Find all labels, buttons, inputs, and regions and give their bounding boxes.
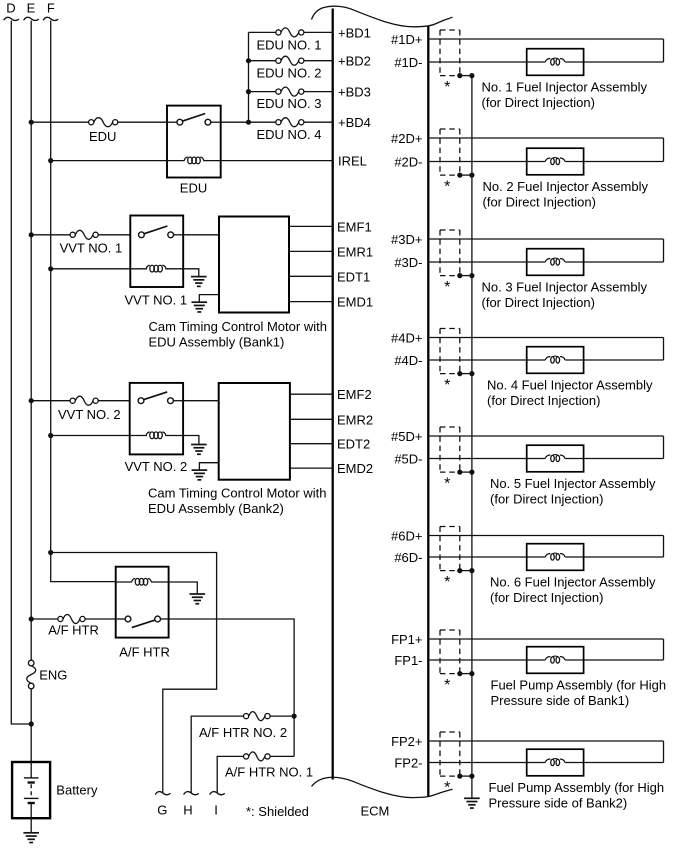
wire IREL (F bus to ECM through EDU relay coil) [51,160,185,162]
fuse A/F HTR [58,615,85,624]
wire FP1- (minus) [428,659,545,661]
battery cell1 long plate [24,777,39,779]
wire EMF1 [289,225,333,227]
node I terminal squiggle [210,792,225,795]
relay VVT NO.2 switch lever [143,392,167,400]
svg-text:I: I [214,803,218,818]
wire relay A/F HTR switch internals [116,618,125,620]
ground cam motor bank2 [192,470,208,480]
svg-text:#6D+: #6D+ [391,529,422,544]
wire right-end loop row 8 [663,741,665,763]
wire EMD2 [290,467,333,469]
relay EDU coil [184,157,204,164]
relay A/F HTR switch contact left [125,616,131,622]
fuse VVT NO. 1 [70,230,98,239]
ECM right boundary [427,26,429,797]
svg-text:Cam Timing Control Motor with: Cam Timing Control Motor with [149,319,327,334]
wire right-end loop row 6 [663,536,665,558]
relay VVT NO.1 coil [146,265,166,272]
svg-text:+BD3: +BD3 [338,85,371,100]
fuse EDU NO. 1 [276,28,304,37]
wire FP1+ (plus) [428,638,663,640]
wire right-end loop row 3 [663,239,665,262]
svg-text:#4D+: #4D+ [391,331,422,346]
wire +BD3 fuse row [249,91,277,93]
battery cell2 short plate [28,802,35,804]
wire battery to ground [30,818,32,833]
wire shield tie row 7 [460,673,472,675]
svg-text:No. 3 Fuel Injector Assembly: No. 3 Fuel Injector Assembly [482,279,648,294]
svg-text:#3D+: #3D+ [391,232,422,247]
svg-text:(for Direct Injection): (for Direct Injection) [483,194,596,209]
svg-text:EMF2: EMF2 [337,387,372,402]
fuel injector coil row 1 [545,58,565,65]
ground A/F HTR coil [190,594,206,604]
svg-text:#3D-: #3D- [394,255,422,270]
wire #4D- (minus) [428,359,545,361]
wire EDU fuse feed [31,121,89,123]
relay VVT NO.1 box [130,216,183,288]
junction branch / +BD4 [246,120,251,125]
junction shield row 7 b [469,671,474,676]
svg-text:EDU: EDU [180,181,207,196]
fuel injector box row 2 [527,148,584,175]
junction F bus / VVT NO.1 coil [48,266,53,271]
ground VVT NO.2 coil [191,445,207,455]
ECM left boundary [332,9,334,780]
svg-text:+BD1: +BD1 [338,25,371,40]
wire FP2+ (plus) [428,740,663,742]
fuel pump coil row 8 [545,759,565,766]
fuel injector coil row 6 [545,553,565,560]
wire A/F HTR coil to ground [169,582,198,594]
junction E bus / VVT NO.1 fuse [29,232,34,237]
svg-text:#5D+: #5D+ [391,429,422,444]
svg-text:EMD1: EMD1 [337,295,373,310]
svg-text:EDT2: EDT2 [337,437,370,452]
wire VVT NO.1 relay coil feed [51,268,147,270]
fuse A/F HTR NO. 1 [244,752,271,761]
svg-text:EMR2: EMR2 [337,412,373,427]
relay EDU switch contact left [177,119,183,125]
junction F bus / IREL [48,158,53,163]
svg-text:VVT NO. 2: VVT NO. 2 [125,459,188,474]
shield box row 8 (dashed) [440,732,460,776]
svg-text:EMD2: EMD2 [337,461,373,476]
wire shield tie row 8 [460,775,472,777]
junction shield row 5 a [457,470,462,475]
ground battery [23,833,39,843]
wire VVT NO.2 relay coil feed [51,435,147,437]
svg-text:No. 2 Fuel Injector Assembly: No. 2 Fuel Injector Assembly [483,179,649,194]
svg-text:*: * [444,178,450,195]
wire shield tie row 4 [460,373,472,375]
junction shield row 3 b [469,273,474,278]
svg-text:(for Direct Injection): (for Direct Injection) [482,95,595,110]
relay A/F HTR switch lever [132,620,155,628]
svg-text:No. 5 Fuel Injector Assembly: No. 5 Fuel Injector Assembly [490,476,656,491]
wire cam motor bank1 ground lead [199,295,219,303]
shield box row 7 (dashed) [440,630,460,674]
svg-text:(for Direct Injection): (for Direct Injection) [490,590,603,605]
svg-text:EDU Assembly (Bank1): EDU Assembly (Bank1) [149,335,285,350]
node G terminal squiggle [155,792,170,795]
fuel injector coil row 3 [545,258,565,265]
wire shield tie row 1 [460,75,472,77]
wire #1D- (minus) [428,61,545,63]
wire right-end loop row 1 [663,39,665,62]
wire shield tie row 2 [460,174,472,176]
svg-text:*: * [444,677,450,694]
svg-text:G: G [157,803,167,818]
fuel injector box row 4 [527,347,584,374]
fuel pump box row 7 [527,647,584,674]
svg-text:#2D-: #2D- [394,155,422,170]
relay VVT NO.2 box [130,383,183,455]
fuel injector coil row 4 [545,356,565,363]
wire VVT NO.1 switch output to motor [183,234,219,236]
svg-text:No. 6 Fuel Injector Assembly: No. 6 Fuel Injector Assembly [490,574,656,589]
fuse EDU NO. 2 [276,56,304,65]
svg-text:A/F HTR: A/F HTR [119,644,170,659]
wire #5D- (minus) [428,458,545,460]
svg-text:(for Direct Injection): (for Direct Injection) [487,393,600,408]
svg-text:EDT1: EDT1 [337,269,370,284]
svg-text:#4D-: #4D- [394,353,422,368]
wire cam motor bank2 ground lead [199,463,218,470]
svg-text:Pressure side of Bank1): Pressure side of Bank1) [491,693,630,708]
svg-text:+BD4: +BD4 [338,115,371,130]
relay VVT NO.1 switch contact right [168,232,174,238]
svg-text:#2D+: #2D+ [391,131,422,146]
fuel injector box row 3 [527,249,584,276]
wire EMF2 [290,393,333,395]
svg-text:EDU NO. 3: EDU NO. 3 [257,96,322,111]
relay A/F HTR coil [132,578,152,585]
svg-text:Fuel Pump Assembly (for High: Fuel Pump Assembly (for High [489,780,665,795]
fuse VVT NO. 2 [70,396,98,405]
battery cell2 long plate [24,797,39,799]
junction E bus / A/F HTR fuse [29,616,34,621]
wire shield drain vertical [471,76,473,798]
svg-text:*: * [444,79,450,96]
wire EDT1 [289,275,333,277]
svg-text:#1D+: #1D+ [391,32,422,47]
junction shield row 8 a [457,774,462,779]
node E terminal squiggle [24,17,39,20]
wire #5D+ (plus) [428,435,663,437]
svg-text:*: * [444,574,450,591]
wire #2D- (minus) [428,161,545,163]
wire bus E vertical (top to ENG fuse) [30,21,32,661]
battery internal stub bottom [30,803,32,818]
svg-text:EMR1: EMR1 [337,244,373,259]
wire relay EDU switch internal right [211,121,221,123]
svg-text:Battery: Battery [56,783,98,798]
svg-text:Pressure side of Bank2): Pressure side of Bank2) [489,795,628,810]
relay VVT NO.2 switch contact right [168,398,174,404]
svg-text:FP2-: FP2- [394,756,422,771]
fuel pump box row 8 [527,749,584,776]
junction shield row 1 a [457,73,462,78]
wire shield tie row 6 [460,570,472,572]
wire bus E (ENG fuse to battery) [30,688,32,762]
battery internal stub top [30,762,32,778]
svg-text:*: * [444,779,450,796]
svg-text:IREL: IREL [338,154,367,169]
wire +BD4 (relay output to ECM) [221,121,277,123]
fuse EDU [89,118,118,127]
junction shield row 8 b [469,774,474,779]
relay A/F HTR switch contact right [155,616,161,622]
svg-text:(for Direct Injection): (for Direct Injection) [482,295,595,310]
wire EMR2 [290,418,333,420]
svg-text:ENG: ENG [39,668,67,683]
wire #4D+ (plus) [428,337,663,339]
fuel pump coil row 7 [545,656,565,663]
fuse EDU NO. 3 [276,87,304,96]
wire FP2- (minus) [428,762,545,764]
relay A/F HTR box [116,567,169,638]
svg-text:FP1-: FP1- [394,653,422,668]
wire EDT2 [290,443,333,445]
svg-text:A/F HTR NO. 1: A/F HTR NO. 1 [225,765,313,780]
svg-text:EDU NO. 1: EDU NO. 1 [257,38,322,53]
wire A/F HTR switch output [169,619,295,756]
wire #6D+ (plus) [428,535,663,537]
wire relay VVT NO.1 internal switch right [174,234,184,236]
fuel injector box row 1 [527,49,584,76]
wire shield tie row 5 [460,471,472,473]
fuse A/F HTR NO. 2 [244,712,271,721]
svg-text:H: H [183,803,192,818]
junction shield row 2 a [457,173,462,178]
svg-text:E: E [27,1,36,16]
svg-text:(for Direct Injection): (for Direct Injection) [490,491,603,506]
svg-text:Fuel Pump Assembly (for High: Fuel Pump Assembly (for High [491,677,667,692]
fuse ENG [27,660,36,689]
junction shield row 5 b [469,470,474,475]
battery box [12,762,50,818]
junction F bus / G feed [48,550,53,555]
junction shield row 4 a [457,371,462,376]
junction shield row 6 a [457,568,462,573]
junction branch / +BD2 [246,58,251,63]
wire relay EDU switch internal left [167,121,177,123]
svg-text:*: * [444,279,450,296]
wire relay A/F HTR coil internal leads [116,581,132,583]
relay VVT NO.1 switch contact left [139,232,145,238]
wire relay VVT NO.2 internal switch right [173,400,183,402]
wire VVT NO.1 fuse feed [31,234,70,236]
node H terminal squiggle [184,792,199,795]
wire EMR1 [289,250,333,252]
wire G terminal feed (F bus junction down to G) [51,553,217,794]
wire VVT NO.2 coil to ground [165,436,199,445]
svg-text:No. 4 Fuel Injector Assembly: No. 4 Fuel Injector Assembly [487,377,653,392]
fuse EDU NO. 4 [276,118,304,127]
wire branch vertical feed for EDU NO.1-4 fuses [248,32,250,122]
wire bus F vertical [51,21,116,582]
junction shield row 1 b [469,73,474,78]
fuel injector box row 6 [527,544,584,571]
shield box row 2 (dashed) [440,129,460,175]
junction E bus / EDU fuse [29,120,34,125]
svg-text:ECM: ECM [361,804,390,819]
junction shield row 2 b [469,173,474,178]
junction shield row 6 b [469,568,474,573]
svg-text:EDU Assembly (Bank2): EDU Assembly (Bank2) [148,501,284,516]
battery dashed link [30,784,32,796]
wire right-end loop row 4 [663,338,665,361]
shield box row 5 (dashed) [440,427,460,472]
wire A/F HTR NO.2 fuse row (to H terminal) [270,715,294,717]
wire right-end loop row 2 [663,138,665,162]
relay EDU switch contact right [205,119,211,125]
svg-text:F: F [47,1,55,16]
relay VVT NO.2 switch contact left [138,398,144,404]
junction A/F HTR NO.2 fuse / output wire [292,714,297,719]
wire right-end loop row 7 [663,639,665,660]
wire +BD4 fuse row [304,121,333,123]
junction F bus / VVT NO.2 coil [48,433,53,438]
ground VVT NO.1 coil [191,277,207,287]
svg-text:EDU: EDU [89,129,116,144]
node D terminal squiggle [4,17,19,20]
svg-text:#6D-: #6D- [394,550,422,565]
wire +BD1 fuse row [249,31,277,33]
shield box row 3 (dashed) [440,230,460,276]
ECM top torn edge [312,6,453,27]
junction shield row 3 a [457,273,462,278]
svg-text:+BD2: +BD2 [338,54,371,69]
svg-text:No. 1 Fuel Injector Assembly: No. 1 Fuel Injector Assembly [482,79,648,94]
wire VVT NO.2 switch output to motor [183,400,219,402]
svg-text:#5D-: #5D- [394,452,422,467]
wire right-end loop row 5 [663,436,665,459]
svg-text:VVT NO. 1: VVT NO. 1 [60,240,123,255]
relay EDU switch lever [182,114,205,122]
wire #3D- (minus) [428,261,545,263]
svg-text:A/F HTR NO. 2: A/F HTR NO. 2 [199,725,287,740]
wire #1D+ (plus) [428,38,663,40]
fuel injector coil row 2 [545,158,565,165]
relay VVT NO.2 coil [146,432,166,439]
wire #6D- (minus) [428,556,545,558]
wire +BD2 fuse row [249,60,277,62]
ECM bottom torn edge [312,777,453,797]
svg-text:*: * [444,377,450,394]
wire A/F HTR NO.1 fuse row (to I terminal) [270,755,294,757]
relay EDU box [167,106,221,178]
junction branch / +BD3 [246,89,251,94]
junction E bus / VVT NO.2 fuse [29,398,34,403]
svg-text:VVT NO. 2: VVT NO. 2 [58,407,121,422]
svg-text:A/F HTR: A/F HTR [48,623,99,638]
wire VVT NO.2 fuse feed [31,400,70,402]
svg-text:VVT NO. 1: VVT NO. 1 [125,293,188,308]
svg-text:*: Shielded: *: Shielded [246,804,309,819]
shield box row 1 (dashed) [440,30,460,76]
battery cell1 short plate [28,781,35,783]
wire A/F HTR fuse feed [31,618,58,620]
wire #3D+ (plus) [428,238,663,240]
cam timing control motor bank2 box [219,383,290,480]
wire VVT NO.1 coil to ground [165,269,198,277]
node F terminal squiggle [43,17,58,20]
junction shield row 4 b [469,371,474,376]
wire EMD1 [289,301,333,303]
svg-text:EDU NO. 2: EDU NO. 2 [257,66,322,81]
svg-text:Cam Timing Control Motor with: Cam Timing Control Motor with [148,486,326,501]
svg-text:EDU NO. 4: EDU NO. 4 [257,127,322,142]
cam timing control motor bank1 box [219,217,289,313]
shield box row 6 (dashed) [440,527,460,571]
relay VVT NO.1 switch lever [144,226,168,234]
svg-text:*: * [444,475,450,492]
junction shield row 7 a [457,671,462,676]
wire shield tie row 3 [460,275,472,277]
ground cam motor bank1 [192,302,208,312]
fuel injector coil row 5 [545,455,565,462]
svg-text:EMF1: EMF1 [337,219,372,234]
svg-text:D: D [6,1,15,16]
svg-text:FP2+: FP2+ [391,734,422,749]
wire bus D vertical [11,21,31,725]
fuel injector box row 5 [527,445,584,472]
svg-text:FP1+: FP1+ [391,632,422,647]
ground shield drain [464,798,480,808]
svg-text:#1D-: #1D- [394,55,422,70]
shield box row 4 (dashed) [440,329,460,374]
junction D bus / battery feed [29,721,34,726]
wire #2D+ (plus) [428,137,663,139]
